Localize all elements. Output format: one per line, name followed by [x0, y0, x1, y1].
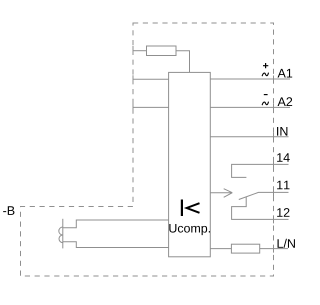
wire terminal L/N [260, 248, 288, 250]
label IN [277, 127, 287, 136]
resistor R2 in L/N lead [231, 244, 259, 253]
relay contact arm and wire terminal 11 [239, 192, 289, 199]
sensor B electrode stem [62, 219, 64, 249]
AC tilde at A2 [262, 102, 268, 106]
function symbol I bar [181, 200, 183, 217]
terminal tick IN [273, 133, 275, 141]
label 11 [277, 181, 289, 190]
wire terminal IN [210, 136, 288, 138]
label A1 [278, 69, 293, 78]
wire terminal A1 [210, 78, 290, 80]
sensor bottom wire to U1 [63, 242, 169, 248]
terminal tick A2 [273, 103, 275, 111]
wire R1 left [133, 50, 147, 52]
label L/N [278, 239, 295, 248]
wire terminal 12 to NC contact hook [232, 197, 289, 220]
label 14 [277, 153, 290, 162]
wire left supply b [133, 106, 169, 108]
polarity minus sign at A2 [264, 94, 268, 96]
label A2 [278, 97, 293, 106]
resistor R1 [147, 46, 177, 56]
sensor B coil bumps [59, 227, 63, 243]
dashed enclosure border [21, 23, 274, 276]
terminal tick 11 [273, 188, 275, 196]
terminal tick 14 [273, 160, 275, 168]
terminal tick R1 feed [132, 46, 134, 54]
terminal tick left supply a [132, 75, 134, 83]
wire terminal A2 [210, 106, 290, 108]
terminal tick left supply b [132, 103, 134, 111]
wire R1 right to junction into U1 top [176, 51, 190, 73]
polarity plus sign at A1 [263, 63, 268, 68]
wire left supply a [133, 78, 169, 80]
actuator arrow from U1 [210, 189, 232, 198]
wire L/N left of R2 [210, 248, 231, 250]
sensor top wire to U1 [63, 220, 169, 228]
function symbol less-than [187, 203, 200, 213]
terminal tick A1 [273, 76, 275, 84]
terminal tick 12 [273, 215, 275, 223]
label -B [3, 206, 14, 215]
wire terminal 14 to NO contact [232, 164, 289, 177]
label 12 [277, 208, 289, 217]
AC tilde at A1 [262, 73, 268, 77]
terminal tick L/N [273, 245, 275, 253]
label Ucomp. [169, 224, 210, 235]
device block U1 [169, 72, 211, 256]
